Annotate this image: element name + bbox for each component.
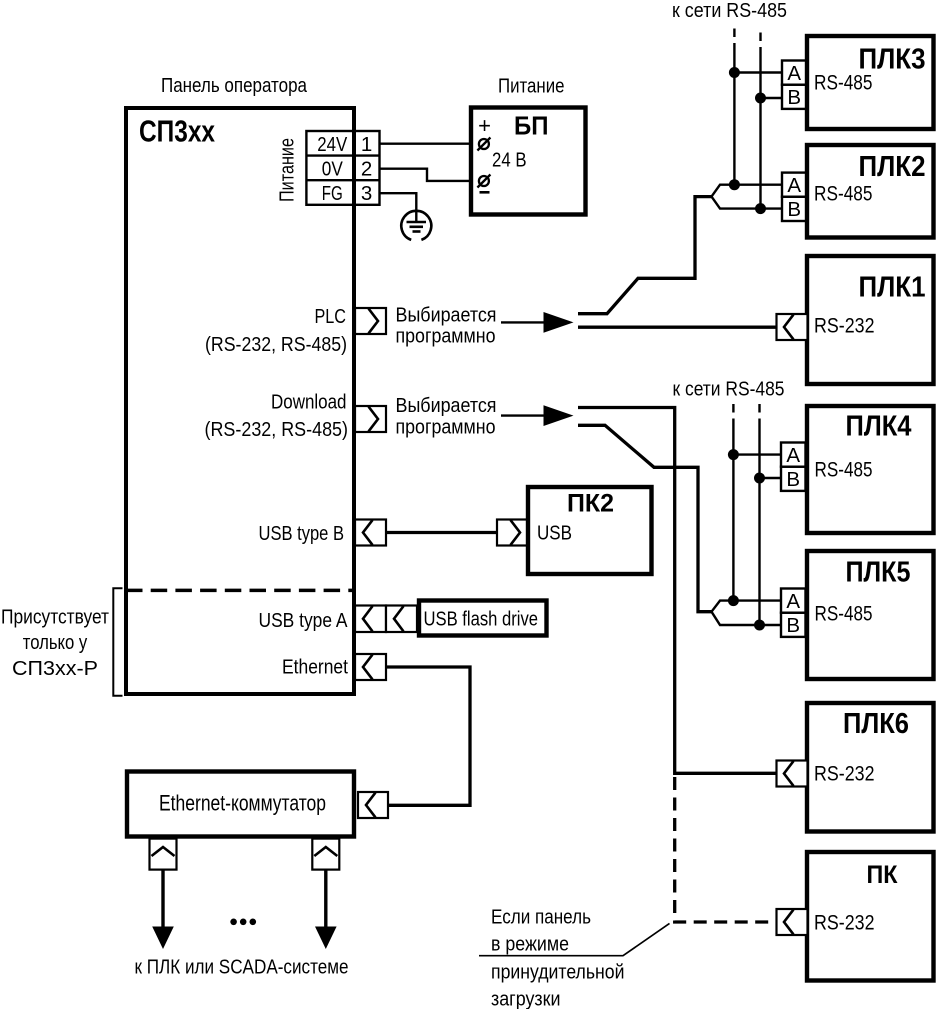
power supply box БП [471, 108, 586, 215]
svg-text:B: B [786, 468, 800, 491]
svg-text:B: B [787, 86, 801, 109]
БП screw terminal 2 [477, 175, 490, 188]
junction: net A at ПЛК5 [728, 595, 739, 606]
svg-text:A: A [786, 590, 800, 613]
terminal A of ПЛК5 [781, 589, 806, 613]
wire: pin 3 (FG) to protective earth [380, 193, 417, 222]
junction: net A at ПЛК2 [729, 179, 740, 190]
wire: RS-485 net A vertical (ПЛК4-ПЛК5) [732, 426, 734, 601]
wire: RS-485 net B (top, dashed continuation) [759, 33, 761, 56]
junction: net B at ПЛК2 [755, 203, 766, 214]
arrow: downlink 2 to ПЛК/SCADA [324, 869, 327, 928]
wire: RS-485 net B vertical (ПЛК3-ПЛК2) [759, 55, 761, 209]
svg-text:ПЛК1: ПЛК1 [859, 272, 926, 304]
PLC box ПЛК1 [807, 256, 934, 384]
operator panel box СП3хх [126, 108, 354, 694]
svg-text:Присутствует: Присутствует [1, 606, 110, 629]
svg-text:RS-485: RS-485 [815, 458, 873, 482]
svg-text:A: A [786, 444, 800, 467]
wire: Download RS-232 bus down to ПЛК6/ПК [578, 408, 777, 774]
svg-text:RS-232: RS-232 [814, 911, 875, 935]
junction: net B at ПЛК3 [755, 93, 766, 104]
junction: net A at ПЛК4 [728, 449, 739, 460]
fork: Download RS-485 pair to ПЛК5 A/B [712, 601, 782, 625]
svg-text:Выбирается: Выбирается [396, 394, 497, 417]
wire: PLC RS-232 to ПЛК1 [578, 326, 777, 329]
connector: RS-232 on ПЛК1 [777, 314, 808, 340]
svg-text:B: B [786, 614, 800, 637]
PLC box ПЛК4 [807, 406, 934, 533]
svg-text:RS-485: RS-485 [815, 602, 873, 626]
box: USB flash drive [419, 601, 547, 636]
svg-text:Download: Download [271, 391, 347, 414]
svg-text:FG: FG [322, 182, 343, 205]
wire: RS-485 net B (dashed continuation, ПЛК4 group) [758, 404, 760, 426]
svg-text:к сети RS-485: к сети RS-485 [673, 378, 785, 401]
PLC box ПЛК2 [807, 145, 934, 238]
wire: dashed bus to ПК (forced load mode) [675, 777, 777, 922]
dashed separator inside СП3хх (СП3хх-Р section) [126, 589, 354, 593]
connector: USB type B on СП3хх [355, 520, 386, 546]
wire: ПЛК3 A branch [734, 71, 782, 73]
svg-text:24 В: 24 В [492, 148, 527, 171]
svg-text:принудительной: принудительной [491, 961, 625, 984]
wire: pin 1 (24V) to БП plus terminal [380, 142, 478, 144]
wire: ПЛК4 A branch [733, 453, 781, 455]
connector: RS-232 on ПЛК6 [777, 761, 808, 787]
svg-text:СП3хх: СП3хх [139, 114, 216, 149]
svg-text:USB type B: USB type B [259, 522, 345, 545]
terminal B of ПЛК3 [782, 85, 807, 109]
svg-text:RS-232: RS-232 [814, 762, 875, 786]
PLC box ПЛК5 [807, 551, 934, 679]
svg-text:3: 3 [361, 182, 372, 205]
svg-text:(RS-232, RS-485): (RS-232, RS-485) [205, 418, 349, 441]
svg-text:Питание: Питание [498, 75, 565, 98]
connector: switch downlink port 2 [312, 839, 339, 870]
junction: net B at ПЛК4 [754, 473, 765, 484]
svg-text:ПЛК4: ПЛК4 [846, 410, 912, 442]
power terminal block of СП3хх (24V/0V/FG pins 1,2,3) [306, 131, 379, 205]
svg-text:в режиме: в режиме [491, 933, 569, 956]
connector: switch downlink port 1 [150, 839, 177, 870]
connector: uplink on Ethernet switch [358, 792, 388, 818]
svg-text:(RS-232, RS-485): (RS-232, RS-485) [205, 333, 347, 356]
svg-text:RS-485: RS-485 [814, 182, 873, 206]
svg-text:1: 1 [361, 133, 372, 156]
arrow: Download selection [501, 414, 545, 416]
terminal A of ПЛК3 [782, 61, 807, 85]
svg-text:RS-232: RS-232 [814, 314, 875, 338]
БП minus polarity mark [480, 191, 490, 194]
svg-text:2: 2 [361, 157, 372, 180]
svg-text:программно: программно [396, 325, 496, 348]
svg-text:ПЛК2: ПЛК2 [859, 151, 926, 183]
svg-text:ПК2: ПК2 [567, 490, 614, 518]
svg-text:RS-485: RS-485 [814, 71, 873, 95]
svg-text:к ПЛК или SCADA-системе: к ПЛК или SCADA-системе [135, 956, 349, 979]
ellipsis between arrows [230, 919, 237, 926]
computer box ПК2 [528, 487, 652, 574]
connector: USB on ПК2 [497, 520, 528, 546]
wire: pin 2 (0V) to БП minus terminal [380, 169, 478, 181]
connector: Download port on СП3хх [355, 406, 386, 432]
junction: net A at ПЛК3 [729, 67, 740, 78]
computer box ПК [807, 852, 934, 981]
wire: RS-485 net A (dashed continuation, ПЛК4 group) [732, 404, 734, 426]
wire: Ethernet to switch [386, 667, 470, 805]
wire: Download RS-485 pair to ПЛК4/ПЛК5 network fork [578, 425, 712, 611]
svg-text:ПЛК5: ПЛК5 [846, 557, 911, 589]
connector: USB flash drive plug [386, 606, 417, 633]
PLC box ПЛК3 [807, 36, 934, 129]
leader line from note to dashed bus corner [479, 923, 670, 955]
terminal B of ПЛК4 [781, 467, 806, 491]
box: Ethernet-коммутатор [127, 772, 354, 837]
terminal A of ПЛК2 [782, 173, 807, 197]
connector: Ethernet on СП3хх [355, 654, 386, 680]
wire: RS-485 net A vertical (ПЛК3-ПЛК2) [733, 51, 735, 185]
svg-text:Панель оператора: Панель оператора [161, 74, 307, 97]
terminal B of ПЛК2 [782, 197, 807, 221]
wire: RS-485 net A (top, dashed continuation) [733, 29, 735, 52]
arrow: downlink 1 to ПЛК/SCADA [161, 869, 164, 928]
wire: ПЛК3 B branch [761, 97, 783, 99]
svg-text:загрузки: загрузки [491, 988, 561, 1009]
terminal B of ПЛК5 [781, 613, 806, 637]
svg-text:USB flash drive: USB flash drive [424, 608, 539, 631]
svg-text:ПЛК6: ПЛК6 [843, 708, 909, 740]
svg-text:СП3хх-Р: СП3хх-Р [12, 657, 98, 680]
svg-text:Ethernet: Ethernet [282, 656, 348, 679]
junction: net B at ПЛК5 [754, 620, 765, 631]
arrow: PLC selection [501, 321, 545, 323]
svg-text:только у: только у [23, 631, 88, 654]
БП screw terminal 1 [477, 138, 490, 151]
svg-text:A: A [787, 62, 801, 85]
svg-text:Ethernet-коммутатор: Ethernet-коммутатор [159, 791, 326, 816]
svg-text:+: + [478, 113, 491, 138]
svg-text:0V: 0V [322, 157, 343, 180]
svg-text:24V: 24V [317, 133, 347, 156]
wire: RS-485 net B vertical (ПЛК4-ПЛК5) [758, 426, 760, 625]
wire: USB type B to ПК2 [386, 531, 498, 534]
svg-text:A: A [787, 174, 801, 197]
svg-text:к сети RS-485: к сети RS-485 [672, 0, 787, 22]
fork: PLC RS-485 pair to ПЛК2 A/B [712, 185, 783, 209]
terminal A of ПЛК4 [781, 443, 806, 467]
svg-text:USB type A: USB type A [259, 609, 348, 632]
connector: RS-232 on ПК [777, 909, 808, 935]
svg-text:программно: программно [396, 416, 496, 439]
wire: PLC RS-485 pair up to ПЛК2/ПЛК3 network fork [578, 197, 712, 314]
svg-text:Выбирается: Выбирается [396, 304, 497, 327]
protective earth ground symbol [401, 211, 431, 240]
svg-text:Если панель: Если панель [491, 906, 591, 929]
svg-text:ПК: ПК [867, 861, 899, 889]
connector: PLC port on СП3хх [355, 308, 386, 334]
bracket: Присутствует только у СП3хх-Р [113, 588, 122, 695]
wire: ПЛК4 B branch [760, 477, 782, 479]
svg-text:B: B [787, 198, 801, 221]
svg-text:БП: БП [514, 111, 549, 141]
svg-text:USB: USB [537, 522, 572, 545]
svg-text:PLC: PLC [315, 305, 347, 328]
PLC box ПЛК6 [807, 703, 934, 832]
connector: USB type A on СП3хх [355, 606, 386, 633]
svg-text:Питание: Питание [276, 138, 299, 202]
